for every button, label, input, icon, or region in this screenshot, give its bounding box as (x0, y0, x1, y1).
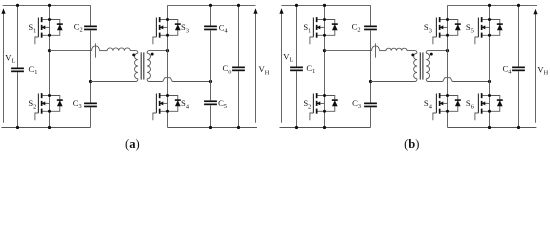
node Co bottom rail (a) (237, 126, 240, 129)
transistor S2 (b) (303, 93, 337, 120)
wire secondary bottom continued (a) (172, 81, 210, 83)
wire S1-S2 leg (a) (49, 5, 51, 127)
wire C1 leg lower (b) (296, 71, 298, 127)
svg-text:C4: C4 (219, 22, 229, 34)
transistor S4 (b) (424, 93, 461, 120)
svg-text:C3: C3 (352, 98, 361, 110)
node S1 drain on rail (b) (323, 4, 326, 7)
node C5 bottom rail (a) (209, 126, 212, 129)
transistor S5 (b) (466, 17, 503, 44)
transformer secondary winding (b) (426, 53, 429, 79)
wire crossover to inductor (a) (100, 50, 108, 52)
voltage arrow V_H output (b) (533, 9, 537, 123)
wire secondary bottom (a) (147, 79, 163, 82)
wire C2 leg from rail (a) (90, 5, 92, 25)
wire hop over tick (b) (372, 46, 380, 51)
node S6 source on rail (b) (488, 126, 491, 129)
wire bottom rail right section (a) (168, 127, 258, 129)
svg-text:C2: C2 (74, 21, 83, 33)
node S1-S2 midpoint (a) (48, 49, 51, 52)
wire C1 leg upper (b) (296, 5, 298, 66)
svg-text:VH: VH (259, 64, 270, 76)
node primary polarity dot (a) (132, 53, 135, 56)
voltage arrow V_L input (b) (279, 8, 283, 122)
node secondary top junction (a) (166, 49, 169, 52)
wire S5-S6 leg (b) (489, 5, 491, 127)
capacitor Co (a) (232, 67, 245, 69)
svg-text:Co: Co (223, 63, 232, 75)
transformer core (b) (419, 52, 421, 79)
wire C2 leg from rail (b) (370, 5, 372, 25)
wire S-midpoint to crossover (b) (325, 50, 372, 52)
svg-text:C1: C1 (29, 64, 38, 76)
node C4 top rail (b) (517, 4, 520, 7)
svg-text:S2: S2 (28, 98, 36, 110)
svg-text:VL: VL (5, 52, 15, 64)
svg-text:S4: S4 (424, 98, 433, 110)
svg-text:C4: C4 (503, 63, 513, 75)
svg-text:(b): (b) (404, 137, 419, 151)
wire C3 to bottom rail (b) (370, 107, 372, 127)
capacitor C5 (a) (204, 100, 217, 102)
wire S1-S2 leg (b) (324, 5, 326, 127)
wire C4 leg from rail (a) (210, 5, 212, 25)
wire crossover to inductor (b) (380, 50, 387, 52)
voltage arrow V_L input (a) (1, 8, 5, 122)
svg-text:VL: VL (283, 52, 293, 64)
svg-text:S6: S6 (466, 98, 474, 110)
wire primary bottom to C-midpoint (b) (371, 79, 418, 82)
node Co top rail (a) (237, 4, 240, 7)
node C1 bottom (a) (16, 126, 19, 129)
capacitor C4 (b) (512, 67, 525, 69)
wire C4 leg upper (b) (518, 5, 520, 66)
transformer primary winding (b) (414, 53, 417, 79)
svg-text:VH: VH (537, 65, 548, 77)
wire S-midpoint to crossover (a) (50, 50, 92, 52)
wire S3-S4 leg (a) (167, 5, 169, 127)
transistor S2 (a) (28, 93, 62, 120)
transformer primary winding (a) (135, 53, 138, 79)
wire hop over tick (a) (92, 46, 100, 51)
crossing tick (a) (95, 43, 97, 57)
capacitor C3 (a) (84, 103, 97, 105)
node C4 top rail (a) (209, 4, 212, 7)
node secondary bottom junction (b) (488, 80, 491, 83)
node S1-S2 midpoint (b) (323, 49, 326, 52)
wire Co leg lower (a) (238, 71, 240, 127)
wire top rail right section (a) (168, 4, 256, 6)
transistor S6 (b) (466, 93, 503, 120)
transistor S1 (b) (303, 17, 337, 44)
svg-text:S3: S3 (181, 22, 189, 34)
wire C4 leg lower (b) (518, 71, 520, 127)
wire C2-C3 middle leg (b) (370, 30, 372, 102)
wire hop over S34 leg (a) (163, 78, 173, 82)
capacitor C3 (b) (364, 103, 377, 105)
wire bottom rail left section (b) (280, 127, 371, 129)
wire bottom rail right section (b) (448, 127, 537, 129)
wire primary bottom to C-midpoint (a) (91, 79, 138, 82)
svg-text:S4: S4 (181, 98, 190, 110)
transistor S3 (a) (153, 17, 189, 44)
node C1 top (a) (16, 4, 19, 7)
inductor L (a) (107, 48, 130, 51)
svg-text:S5: S5 (466, 22, 474, 34)
wire top rail left section (a) (3, 4, 91, 6)
svg-text:S2: S2 (303, 98, 311, 110)
node C2-C3 midpoint (b) (369, 80, 372, 83)
transistor S3 (b) (424, 17, 461, 44)
node secondary top junction (b) (446, 49, 449, 52)
wire secondary top to S34-midpoint (b) (426, 51, 447, 54)
node secondary bottom junction (a) (209, 80, 212, 83)
wire inductor to primary top (a) (130, 51, 138, 54)
wire secondary bottom continued (b) (452, 81, 489, 83)
capacitor C1 (a) (11, 68, 24, 70)
node C1 top (b) (295, 4, 298, 7)
wire bottom rail left section (a) (1, 127, 90, 129)
node primary polarity dot (b) (411, 53, 414, 56)
svg-text:S3: S3 (424, 22, 432, 34)
svg-text:(a): (a) (125, 137, 140, 151)
transistor S1 (a) (28, 17, 62, 44)
transformer core (a) (140, 52, 142, 79)
wire C5 to bottom rail (a) (210, 105, 212, 127)
node secondary polarity dot (a) (151, 53, 154, 56)
svg-text:C2: C2 (352, 21, 361, 33)
wire top rail right section (b) (448, 4, 538, 6)
svg-text:C1: C1 (306, 63, 315, 75)
wire inductor to primary top (b) (407, 51, 417, 54)
capacitor C1 (b) (290, 67, 303, 69)
node C1 bottom (b) (295, 126, 298, 129)
node S2 source on rail (b) (323, 126, 326, 129)
wire C1 leg lower (a) (17, 72, 19, 127)
wire top rail left section (b) (281, 4, 370, 6)
capacitor C4 (a) (204, 26, 217, 28)
svg-text:C5: C5 (218, 98, 227, 110)
voltage arrow V_H output (a) (253, 8, 257, 122)
capacitor C2 (b) (364, 26, 377, 28)
wire C2-C3 middle leg (a) (90, 30, 92, 102)
wire Co leg upper (a) (238, 5, 240, 66)
transformer secondary winding (a) (147, 53, 150, 79)
wire C3 to bottom rail (a) (90, 107, 92, 127)
crossing tick (b) (375, 43, 377, 57)
node S5 drain on rail (b) (488, 4, 491, 7)
wire secondary bottom (b) (426, 79, 443, 82)
svg-text:S1: S1 (303, 22, 311, 34)
wire hop over S34 leg (b) (443, 78, 453, 82)
transistor S4 (a) (153, 93, 190, 120)
wire C4-C5 middle leg (a) (210, 30, 212, 100)
svg-text:C3: C3 (73, 98, 82, 110)
node secondary polarity dot (b) (430, 53, 433, 56)
node C2-C3 midpoint (a) (89, 80, 92, 83)
wire S3-S4 leg (b) (447, 5, 449, 127)
node S2 source on rail (a) (48, 126, 51, 129)
capacitor C2 (a) (84, 26, 97, 28)
wire secondary top to S34-midpoint (a) (147, 51, 167, 54)
inductor L (b) (386, 48, 407, 50)
node C4 bottom rail (b) (517, 126, 520, 129)
svg-text:S1: S1 (28, 22, 36, 34)
node S1 drain on rail (a) (48, 4, 51, 7)
wire C1 leg upper (a) (17, 5, 19, 67)
